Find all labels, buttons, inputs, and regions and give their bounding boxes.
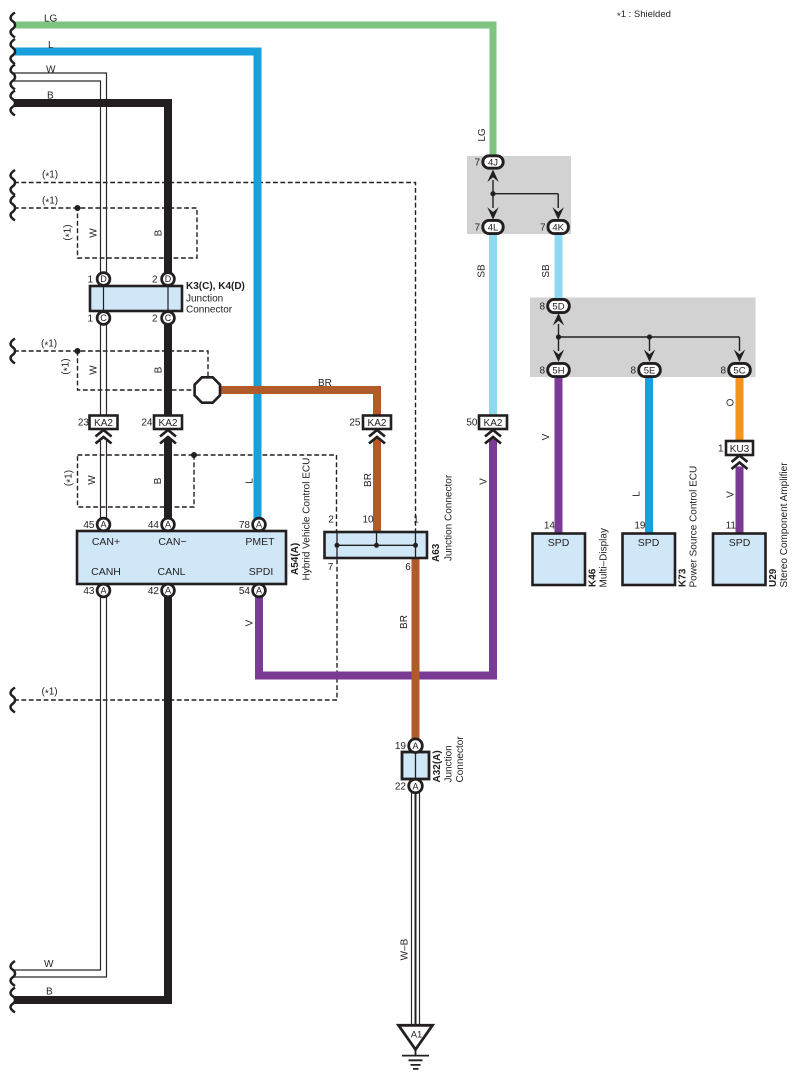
svg-text:5E: 5E xyxy=(644,365,656,376)
svg-text:W–B: W–B xyxy=(400,938,411,960)
svg-text:Connector: Connector xyxy=(186,305,233,316)
label SB right xyxy=(541,264,552,278)
wire B below 24 KA2 to A54 pin 44 xyxy=(164,439,172,520)
label U29 rotated xyxy=(768,568,779,587)
label B on wire (shield rect1) xyxy=(154,229,165,236)
inline connector 24 KA2 box xyxy=(154,416,182,430)
connector 5C xyxy=(729,363,751,376)
label Power Source Control ECU rotated xyxy=(689,466,700,588)
wire V from 5H to K46 pin 14 xyxy=(555,376,563,534)
shield break (*1) second xyxy=(11,196,15,221)
pin number 2 (A63) xyxy=(328,515,334,526)
pin number 1 (K3 C1) xyxy=(87,314,93,325)
junction connector A63 body xyxy=(325,532,428,558)
pin number 19 (K73) xyxy=(634,521,646,532)
wire L from 5E to K73 pin 19 xyxy=(645,376,653,534)
svg-text:(*1): (*1) xyxy=(42,196,58,209)
svg-text:11: 11 xyxy=(726,521,737,532)
wire W-B from A32 pin 22 to ground A1 (white with black stripe) xyxy=(412,792,420,1025)
label V below KU3 xyxy=(726,491,737,498)
svg-text:W: W xyxy=(89,365,100,375)
pin number 1 (A63) xyxy=(413,515,419,526)
label W on wire (shield rect1) xyxy=(89,228,100,238)
pin number 8 (5C) xyxy=(720,366,726,377)
svg-text:7: 7 xyxy=(474,158,480,169)
pin number 1 (K3 D1) xyxy=(87,275,93,286)
label B on wire (octagon loop) xyxy=(154,366,165,373)
svg-text:KU3: KU3 xyxy=(730,444,750,455)
A54 pin 42 A xyxy=(162,584,175,597)
label (*1) bottom line xyxy=(42,687,58,700)
svg-text:CAN−: CAN− xyxy=(158,536,186,548)
shield line (*1) bottom, from A63 pin 7 xyxy=(14,558,337,700)
svg-text:Hybrid Vehicle Control ECU: Hybrid Vehicle Control ECU xyxy=(302,458,313,581)
label SPDI xyxy=(249,566,274,578)
pin number 24 xyxy=(141,418,153,429)
svg-text:5H: 5H xyxy=(552,365,564,376)
svg-text:L: L xyxy=(245,478,256,484)
label A32(A) rotated xyxy=(432,750,443,782)
svg-text:(*1): (*1) xyxy=(41,339,57,352)
label L on blue wire xyxy=(245,478,256,484)
ground A1 symbol xyxy=(399,1025,433,1069)
junction dot on shield at (77.5,351) xyxy=(75,348,81,354)
K3 pin 1 C xyxy=(97,312,110,325)
pin number 22 (A32) xyxy=(395,782,407,793)
wire SB from 4L to 50 KA2 xyxy=(489,233,497,415)
pin number 7 (A63) xyxy=(328,562,334,573)
A54 pin 54 A xyxy=(253,584,266,597)
label (*1) rotated at rect1 xyxy=(63,224,76,240)
shield line (*1) to noise filter octagon xyxy=(14,351,208,390)
label BR on vertical wire below A63 xyxy=(399,615,410,629)
wire break W top xyxy=(11,65,15,90)
svg-text:V: V xyxy=(245,619,256,626)
shield line (*1) top, to A63 pin 1 xyxy=(14,183,416,533)
inline connector 24 KA2 chevrons xyxy=(160,430,176,444)
pin number 44 xyxy=(148,520,160,531)
svg-text:24: 24 xyxy=(141,418,153,429)
svg-text:4L: 4L xyxy=(488,222,499,233)
label L top xyxy=(48,40,54,51)
pin number 10 (A63) xyxy=(362,515,374,526)
label BR on vertical wire above A63 xyxy=(363,473,374,487)
wire BR below 25 KA2 to A63 pin 10 xyxy=(373,439,381,534)
connector 5H xyxy=(548,363,570,376)
svg-text:5C: 5C xyxy=(733,365,745,376)
svg-text:7: 7 xyxy=(540,223,546,234)
svg-text:Stereo Component Amplifier: Stereo Component Amplifier xyxy=(779,462,790,588)
wire LG (green) from left edge to 4J xyxy=(15,25,493,157)
svg-text:42: 42 xyxy=(148,586,160,597)
arrow down into 5H xyxy=(553,350,564,363)
svg-text:L: L xyxy=(48,40,54,51)
svg-text:8: 8 xyxy=(539,366,545,377)
svg-text:A: A xyxy=(100,520,106,530)
inline connector 50 KA2 chevrons xyxy=(485,430,501,444)
pin number 23 xyxy=(78,418,90,429)
label W top xyxy=(46,65,56,76)
pin number 7 (4K) xyxy=(540,223,546,234)
svg-text:A: A xyxy=(165,586,171,596)
svg-text:19: 19 xyxy=(634,521,646,532)
svg-text:6: 6 xyxy=(405,562,411,573)
svg-text:50: 50 xyxy=(466,418,478,429)
pin number 8 (5H) xyxy=(539,366,545,377)
svg-text:1: 1 xyxy=(87,275,93,286)
shield gray box around 5D/5H/5E/5C xyxy=(530,298,756,378)
wire O from 5C to KU3 xyxy=(736,376,744,442)
svg-text:A: A xyxy=(165,520,171,530)
svg-text:8: 8 xyxy=(720,366,726,377)
svg-text:U29: U29 xyxy=(768,568,779,587)
label A63 rotated xyxy=(431,543,442,562)
label Junction (K3) xyxy=(186,294,223,305)
A32 pin 19 A xyxy=(409,739,423,753)
svg-text:45: 45 xyxy=(83,520,95,531)
svg-text:23: 23 xyxy=(78,418,90,429)
svg-text:D: D xyxy=(165,274,172,284)
svg-text:4K: 4K xyxy=(552,222,564,233)
label B top xyxy=(47,91,54,102)
svg-text:1: 1 xyxy=(87,314,93,325)
svg-text:78: 78 xyxy=(239,520,251,531)
label KA2 (50) xyxy=(484,418,503,429)
label KA2 (25) xyxy=(368,418,387,429)
inline connector 1 KU3 chevrons xyxy=(732,456,748,470)
wire W (white, two lines) from left edge through K3 to 23 KA2 xyxy=(14,73,107,416)
arrow up into 5D xyxy=(553,313,564,326)
svg-text:7: 7 xyxy=(328,562,334,573)
svg-text:W: W xyxy=(44,959,54,970)
svg-text:Junction: Junction xyxy=(186,294,223,305)
wire SB from 4K to 5D xyxy=(555,233,563,300)
label (*1) line2 xyxy=(42,196,58,209)
svg-text:10: 10 xyxy=(362,515,374,526)
junction dot (649.5,337) xyxy=(647,334,652,339)
label LG top xyxy=(44,14,58,25)
svg-text:W: W xyxy=(87,475,98,485)
K3 pin 1 D xyxy=(97,273,110,286)
arrow down into 5C xyxy=(734,350,745,363)
inline connector 25 KA2 chevrons xyxy=(369,430,385,444)
label CAN- xyxy=(158,536,186,548)
label V below 5H xyxy=(541,433,552,440)
label W on wire (shield rect2) xyxy=(87,475,98,485)
wire B (black) from left edge through K3 to 24 KA2 xyxy=(14,103,168,416)
K3 pin 2 D xyxy=(162,273,175,286)
svg-text:V: V xyxy=(541,433,552,440)
pin number 6 (A63) xyxy=(405,562,411,573)
svg-text:(*1): (*1) xyxy=(64,470,77,486)
shield break (*1) third xyxy=(11,339,15,364)
svg-text:Junction: Junction xyxy=(444,745,455,782)
svg-text:14: 14 xyxy=(544,521,556,532)
connector 4L xyxy=(483,220,503,233)
svg-text:Multi–Display: Multi–Display xyxy=(599,528,610,587)
K3 pin 2 C xyxy=(162,312,175,325)
svg-text:22: 22 xyxy=(395,782,407,793)
ECU A54(A) body xyxy=(77,531,286,584)
svg-text:*1 : Shielded: *1 : Shielded xyxy=(617,9,671,22)
svg-text:(*1): (*1) xyxy=(42,687,58,700)
label K73 rotated xyxy=(678,568,689,587)
wire L (blue) from left edge to A54 pin 78 xyxy=(15,52,258,520)
label KA2 (23) xyxy=(94,418,113,429)
svg-text:CAN+: CAN+ xyxy=(92,536,120,548)
svg-text:(*1): (*1) xyxy=(61,358,74,374)
A32 pin 22 A xyxy=(409,779,423,793)
svg-text:A: A xyxy=(256,520,262,530)
svg-text:V: V xyxy=(726,491,737,498)
pin number 7 (4J) xyxy=(474,158,480,169)
A54 pin 45 A xyxy=(97,518,110,531)
svg-text:SPDI: SPDI xyxy=(249,566,274,578)
svg-text:CANH: CANH xyxy=(91,566,121,578)
label KA2 (24) xyxy=(159,418,178,429)
label SB left xyxy=(477,264,488,278)
pin number 42 xyxy=(148,586,160,597)
svg-text:BR: BR xyxy=(363,473,374,487)
wire break LG xyxy=(11,13,15,38)
connector 5E xyxy=(639,363,661,376)
label B on wire (shield rect2) xyxy=(153,477,164,484)
pin number 54 xyxy=(239,586,251,597)
junction connector K3(C),K4(D) body xyxy=(90,286,182,311)
label Hybrid Vehicle Control ECU rotated xyxy=(302,458,313,581)
svg-text:PMET: PMET xyxy=(245,536,275,548)
svg-text:BR: BR xyxy=(318,378,332,389)
pin number 2 (K3 D2) xyxy=(152,275,158,286)
pin number 1 (KU3) xyxy=(718,444,724,455)
connector 4J xyxy=(483,156,503,169)
wire V from KU3 to U29 pin 11 xyxy=(736,467,744,535)
wire W below 23 KA2 to A54 pin 45 xyxy=(101,441,107,519)
label Stereo Component Amplifier rotated xyxy=(779,462,790,588)
svg-text:SB: SB xyxy=(477,264,488,278)
label W on wire (octagon loop) xyxy=(89,365,100,375)
joint lines 5D/5H/5E/5C xyxy=(559,324,740,351)
svg-text:A54(A): A54(A) xyxy=(290,543,301,575)
svg-text:K46: K46 xyxy=(588,568,599,587)
junction dot (558.5,337) xyxy=(556,334,561,339)
label V on purple wire to 50 KA2 xyxy=(479,478,490,485)
svg-text:Junction Connector: Junction Connector xyxy=(444,474,455,561)
pin number 11 (U29) xyxy=(726,521,737,532)
svg-text:8: 8 xyxy=(630,366,636,377)
label O below 5C xyxy=(726,398,737,406)
arrow up into 4J xyxy=(487,170,498,183)
wire W from A54 pin 43 to bottom left edge xyxy=(14,596,107,977)
wire BR from octagon to 25 KA2 xyxy=(219,390,377,415)
arrow down into 4L xyxy=(487,207,498,220)
noise filter octagon xyxy=(195,377,220,402)
svg-text:44: 44 xyxy=(148,520,160,531)
inline connector 25 KA2 box xyxy=(363,416,391,430)
connector 4K xyxy=(548,220,568,233)
svg-text:SPD: SPD xyxy=(548,537,570,549)
svg-text:KA2: KA2 xyxy=(368,418,387,429)
label Multi-Display rotated xyxy=(599,528,610,587)
svg-text:D: D xyxy=(100,274,107,284)
label CANL xyxy=(157,566,185,578)
pin number 25 xyxy=(349,418,361,429)
svg-text:A1: A1 xyxy=(411,1030,423,1041)
pin number 2 (K3 C2) xyxy=(152,314,158,325)
A63 internal junction dots xyxy=(335,543,419,548)
shield break (*1) bottom xyxy=(11,688,15,713)
power source control ECU K73 body xyxy=(623,534,676,586)
connector 5D xyxy=(548,299,570,312)
wire break B bottom xyxy=(11,988,15,1013)
label (*1) line3 xyxy=(41,339,57,352)
svg-text:25: 25 xyxy=(349,418,361,429)
label Connector (A32) rotated xyxy=(455,736,466,783)
svg-text:2: 2 xyxy=(152,275,158,286)
pin number 8 (5D) xyxy=(539,302,545,313)
pin number 50 xyxy=(466,418,478,429)
svg-text:B: B xyxy=(154,229,165,236)
svg-text:LG: LG xyxy=(44,14,58,25)
label CANH xyxy=(91,566,121,578)
wire break B top xyxy=(11,91,15,116)
svg-text:A: A xyxy=(100,586,106,596)
svg-text:19: 19 xyxy=(395,741,407,752)
svg-text:KA2: KA2 xyxy=(159,418,178,429)
A54 pin 43 A xyxy=(97,584,110,597)
inline connector 50 KA2 box xyxy=(479,416,507,430)
label (*1) rotated at rect2 xyxy=(64,470,77,486)
svg-text:A: A xyxy=(256,586,262,596)
label PMET xyxy=(245,536,275,548)
label V on purple wire below SPDI xyxy=(245,619,256,626)
label SPD (K73) xyxy=(638,537,660,549)
label W bottom xyxy=(44,959,54,970)
multi-display K46 body xyxy=(533,534,586,586)
svg-text:1: 1 xyxy=(413,515,419,526)
svg-text:KA2: KA2 xyxy=(94,418,113,429)
joint lines 4J/4L/4K xyxy=(493,180,558,208)
svg-text:B: B xyxy=(153,477,164,484)
svg-text:W: W xyxy=(89,228,100,238)
inline connector 23 KA2 box xyxy=(90,416,118,430)
label K46 rotated xyxy=(588,568,599,587)
svg-text:2: 2 xyxy=(152,314,158,325)
pin number 7 (4L) xyxy=(474,223,480,234)
svg-text:W: W xyxy=(46,65,56,76)
A54 pin 44 A xyxy=(162,518,175,531)
svg-text:54: 54 xyxy=(239,586,251,597)
shield rectangle around W/B above A54, drain to A63 pin 2 xyxy=(78,455,337,532)
svg-text:4J: 4J xyxy=(488,157,498,168)
svg-text:C: C xyxy=(100,313,107,323)
svg-text:K3(C), K4(D): K3(C), K4(D) xyxy=(186,281,245,292)
arrow down into 5E xyxy=(644,350,655,363)
inline connector 23 KA2 chevrons xyxy=(96,430,112,444)
wire B from A54 pin 42 to bottom left edge xyxy=(14,596,168,1000)
svg-text:SPD: SPD xyxy=(638,537,660,549)
shield break (*1) first xyxy=(11,170,15,195)
svg-text:A63: A63 xyxy=(431,543,442,562)
svg-text:1: 1 xyxy=(718,444,724,455)
svg-text:B: B xyxy=(47,91,54,102)
svg-text:8: 8 xyxy=(539,302,545,313)
pin number 8 (5E) xyxy=(630,366,636,377)
stereo component amplifier U29 body xyxy=(713,534,766,586)
svg-text:A32(A): A32(A) xyxy=(432,750,443,782)
svg-text:CANL: CANL xyxy=(157,566,185,578)
wire BR from A63 pin 6 to A32 pin 19 xyxy=(412,557,420,740)
label Junction Connector (A63) rotated xyxy=(444,474,455,561)
svg-text:SPD: SPD xyxy=(729,537,751,549)
svg-text:43: 43 xyxy=(83,586,95,597)
svg-text:A: A xyxy=(412,741,418,751)
shield gray box around 4J/4L/4K xyxy=(467,156,571,234)
svg-text:L: L xyxy=(632,491,643,497)
svg-text:A: A xyxy=(412,781,418,791)
svg-text:(*1): (*1) xyxy=(63,224,76,240)
junction dot (493,193.7) xyxy=(490,191,495,196)
label K3(C), K4(D) xyxy=(186,281,245,292)
svg-text:B: B xyxy=(46,987,53,998)
note *1 : Shielded xyxy=(617,9,671,22)
label SPD (K46) xyxy=(548,537,570,549)
svg-text:Connector: Connector xyxy=(455,736,466,783)
junction connector A32(A) body xyxy=(402,752,429,779)
arrow down into 4K xyxy=(553,207,564,220)
svg-text:K73: K73 xyxy=(678,568,689,587)
label LG on green wire xyxy=(477,128,488,142)
svg-text:2: 2 xyxy=(328,515,334,526)
A54 pin 78 A xyxy=(253,518,266,531)
pin number 14 (K46) xyxy=(544,521,556,532)
wire V from A54 pin 54 (SPDI) to 50 KA2 xyxy=(259,439,493,676)
svg-text:C: C xyxy=(165,313,172,323)
label Connector (K3) xyxy=(186,305,233,316)
label CAN+ xyxy=(92,536,120,548)
svg-text:O: O xyxy=(726,398,737,406)
label B bottom xyxy=(46,987,53,998)
wire break W bottom xyxy=(11,961,15,986)
svg-text:B: B xyxy=(154,366,165,373)
label BR above horizontal wire xyxy=(318,378,332,389)
svg-text:KA2: KA2 xyxy=(484,418,503,429)
inline connector 1 KU3 box xyxy=(726,441,753,455)
label (*1) rotated at octagon loop xyxy=(61,358,74,374)
label Junction (A32) rotated xyxy=(444,745,455,782)
label SPD (U29) xyxy=(729,537,751,549)
label W-B on ground wire xyxy=(400,938,411,960)
svg-text:SB: SB xyxy=(541,264,552,278)
svg-text:5D: 5D xyxy=(552,301,564,312)
label KU3 xyxy=(730,444,750,455)
svg-text:Power Source Control ECU: Power Source Control ECU xyxy=(689,466,700,588)
label (*1) line1 xyxy=(42,170,58,183)
svg-text:V: V xyxy=(479,478,490,485)
pin number 78 xyxy=(239,520,251,531)
label L below 5E xyxy=(632,491,643,497)
junction dot on shield at (77.5,208) xyxy=(75,205,81,211)
pin number 45 xyxy=(83,520,95,531)
svg-text:(*1): (*1) xyxy=(42,170,58,183)
pin number 19 (A32) xyxy=(395,741,407,752)
label A54(A) rotated xyxy=(290,543,301,575)
junction dot on shield at (194,455) xyxy=(191,452,197,458)
wire break L xyxy=(11,39,15,64)
svg-text:BR: BR xyxy=(399,615,410,629)
svg-text:LG: LG xyxy=(477,128,488,142)
shield line (*1) second, rectangle around W/B near K3 xyxy=(14,208,197,258)
